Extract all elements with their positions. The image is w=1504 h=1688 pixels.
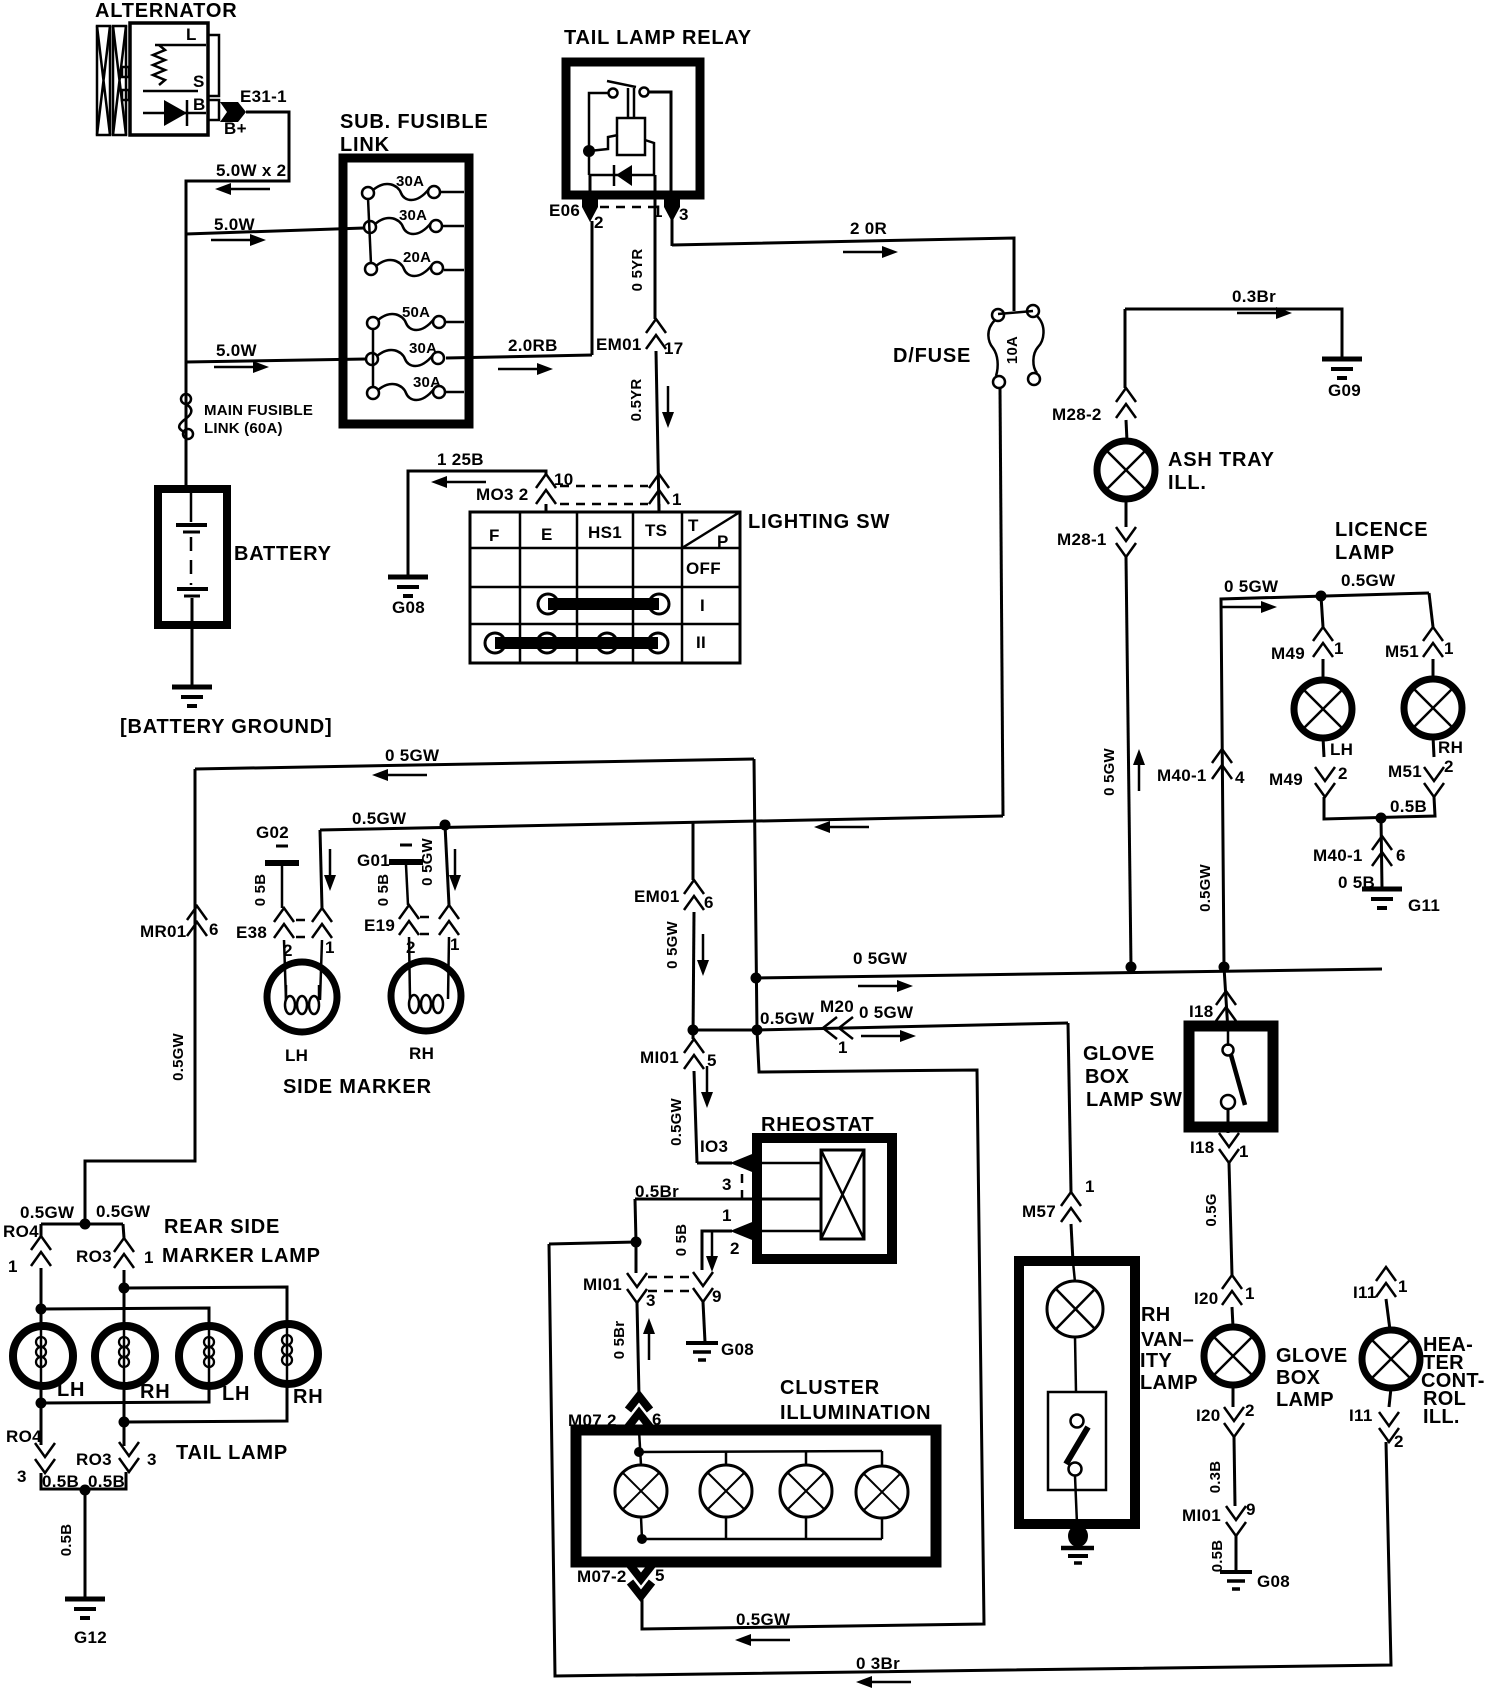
svg-text:1: 1: [325, 938, 335, 957]
svg-text:0 5GW: 0 5GW: [1224, 577, 1279, 596]
svg-text:3: 3: [17, 1467, 27, 1486]
svg-text:0.5G: 0.5G: [1203, 1193, 1220, 1226]
svg-text:G11: G11: [1408, 896, 1440, 915]
svg-text:0 5B: 0 5B: [252, 874, 269, 907]
svg-text:P: P: [717, 532, 729, 551]
svg-text:M49: M49: [1271, 644, 1305, 663]
svg-text:1: 1: [653, 202, 663, 221]
svg-text:ASH TRAY: ASH TRAY: [1168, 449, 1275, 471]
svg-text:E31-1: E31-1: [240, 87, 287, 106]
svg-text:0 5B: 0 5B: [673, 1224, 690, 1257]
svg-text:LAMP SW: LAMP SW: [1086, 1089, 1182, 1111]
svg-text:0 5YR: 0 5YR: [629, 249, 646, 292]
svg-text:G02: G02: [256, 823, 289, 842]
svg-text:0.5GW: 0.5GW: [668, 1098, 685, 1146]
svg-text:MARKER LAMP: MARKER LAMP: [162, 1245, 321, 1267]
svg-text:I11: I11: [1353, 1283, 1377, 1302]
svg-text:2: 2: [283, 941, 293, 960]
svg-text:1: 1: [672, 490, 682, 509]
svg-text:M40-1: M40-1: [1157, 766, 1207, 785]
svg-text:1: 1: [1245, 1284, 1255, 1303]
svg-text:0.3B: 0.3B: [1207, 1461, 1224, 1494]
svg-text:0.5B: 0.5B: [58, 1524, 75, 1557]
svg-text:1: 1: [1085, 1177, 1095, 1196]
svg-text:0.5B: 0.5B: [1390, 797, 1427, 816]
svg-text:10: 10: [554, 470, 574, 489]
svg-text:T: T: [688, 516, 699, 535]
svg-text:G08: G08: [1257, 1572, 1290, 1591]
svg-text:G08: G08: [392, 598, 425, 617]
svg-text:CLUSTER: CLUSTER: [780, 1377, 880, 1399]
svg-text:D/FUSE: D/FUSE: [893, 345, 971, 367]
svg-text:ILL.: ILL.: [1168, 472, 1207, 494]
svg-text:0 5GW: 0 5GW: [853, 949, 908, 968]
svg-text:B: B: [193, 95, 206, 114]
svg-text:IO3: IO3: [700, 1137, 728, 1156]
svg-text:0 5GW: 0 5GW: [385, 746, 440, 765]
svg-text:GLOVE: GLOVE: [1083, 1043, 1155, 1065]
svg-text:MI01: MI01: [583, 1275, 622, 1294]
svg-text:0.5GW: 0.5GW: [170, 1033, 187, 1081]
svg-text:2: 2: [730, 1239, 740, 1258]
svg-text:0.5YR: 0.5YR: [628, 379, 645, 422]
svg-text:0.5GW: 0.5GW: [20, 1203, 75, 1222]
svg-text:EM01: EM01: [634, 887, 680, 906]
svg-text:ILLUMINATION: ILLUMINATION: [780, 1402, 931, 1424]
svg-text:MO3 2: MO3 2: [476, 485, 529, 504]
svg-text:0.5GW: 0.5GW: [760, 1009, 815, 1028]
svg-text:MI01: MI01: [1182, 1506, 1221, 1525]
svg-text:RHEOSTAT: RHEOSTAT: [761, 1114, 874, 1136]
svg-text:5.0W: 5.0W: [216, 341, 258, 360]
svg-text:RO3: RO3: [76, 1450, 112, 1469]
svg-text:1: 1: [450, 935, 460, 954]
svg-text:TAIL LAMP RELAY: TAIL LAMP RELAY: [564, 27, 752, 49]
svg-text:LH: LH: [1330, 740, 1353, 759]
svg-text:RO4: RO4: [3, 1222, 39, 1241]
svg-text:2: 2: [406, 938, 416, 957]
svg-text:30A: 30A: [396, 173, 424, 190]
svg-text:LIGHTING SW: LIGHTING SW: [748, 511, 890, 533]
svg-text:RH: RH: [1141, 1304, 1171, 1326]
svg-text:MI01: MI01: [640, 1048, 679, 1067]
svg-text:9: 9: [712, 1287, 722, 1306]
svg-text:OFF: OFF: [686, 559, 721, 578]
svg-text:G12: G12: [74, 1628, 107, 1647]
svg-text:2.0RB: 2.0RB: [508, 336, 558, 355]
svg-text:5.0W x 2: 5.0W x 2: [216, 161, 286, 180]
svg-text:L: L: [186, 25, 197, 44]
svg-text:0.5GW: 0.5GW: [1197, 864, 1214, 912]
svg-text:1: 1: [144, 1248, 154, 1267]
svg-text:2: 2: [1338, 764, 1348, 783]
svg-text:0 5B: 0 5B: [375, 874, 392, 907]
svg-text:2: 2: [1245, 1401, 1255, 1420]
svg-text:RO4: RO4: [6, 1427, 42, 1446]
svg-text:0 5GW: 0 5GW: [1101, 748, 1118, 796]
svg-text:S: S: [193, 72, 205, 91]
svg-text:0.5Br: 0.5Br: [635, 1182, 679, 1201]
svg-text:M07-2: M07-2: [577, 1567, 627, 1586]
svg-text:LINK: LINK: [340, 134, 390, 156]
svg-text:30A: 30A: [399, 207, 427, 224]
svg-text:I18: I18: [1190, 1138, 1215, 1157]
svg-text:6: 6: [209, 920, 219, 939]
svg-text:B+: B+: [224, 119, 247, 138]
svg-text:30A: 30A: [409, 340, 437, 357]
svg-text:LAMP: LAMP: [1276, 1389, 1334, 1411]
svg-text:SIDE MARKER: SIDE MARKER: [283, 1076, 432, 1098]
svg-text:1: 1: [722, 1206, 732, 1225]
svg-text:2: 2: [1444, 757, 1454, 776]
svg-text:0.5B: 0.5B: [1209, 1540, 1226, 1573]
svg-text:HS1: HS1: [588, 523, 622, 542]
svg-text:ITY: ITY: [1140, 1350, 1172, 1372]
svg-text:LH: LH: [222, 1383, 250, 1405]
svg-text:M49: M49: [1269, 770, 1303, 789]
svg-text:M51: M51: [1388, 762, 1422, 781]
svg-text:5: 5: [655, 1566, 665, 1585]
svg-text:50A: 50A: [402, 304, 430, 321]
svg-text:LAMP: LAMP: [1335, 542, 1395, 564]
svg-text:RH: RH: [293, 1386, 324, 1408]
svg-text:9: 9: [1246, 1500, 1256, 1519]
svg-text:MR01: MR01: [140, 922, 187, 941]
svg-text:BOX: BOX: [1085, 1066, 1130, 1088]
svg-text:10A: 10A: [1004, 336, 1021, 364]
svg-text:4: 4: [1235, 768, 1245, 787]
svg-text:20A: 20A: [403, 249, 431, 266]
svg-text:[BATTERY GROUND]: [BATTERY GROUND]: [120, 716, 332, 738]
svg-text:RH: RH: [1438, 738, 1463, 757]
svg-text:ALTERNATOR: ALTERNATOR: [95, 0, 237, 22]
svg-text:0.5GW: 0.5GW: [1341, 571, 1396, 590]
svg-text:M28-2: M28-2: [1052, 405, 1102, 424]
svg-text:1: 1: [838, 1038, 848, 1057]
svg-text:VAN–: VAN–: [1141, 1329, 1194, 1351]
svg-text:I11: I11: [1349, 1406, 1373, 1425]
svg-text:0 5GW: 0 5GW: [419, 838, 436, 886]
svg-text:0.5GW: 0.5GW: [96, 1202, 151, 1221]
svg-text:2 0R: 2 0R: [850, 219, 887, 238]
svg-text:RH: RH: [409, 1044, 434, 1063]
svg-text:RH: RH: [140, 1381, 171, 1403]
svg-text:TAIL LAMP: TAIL LAMP: [176, 1442, 288, 1464]
svg-text:REAR SIDE: REAR SIDE: [164, 1216, 280, 1238]
svg-text:1 25B: 1 25B: [437, 450, 484, 469]
svg-text:1: 1: [1444, 639, 1454, 658]
svg-text:I: I: [700, 596, 705, 615]
svg-text:0.5GW: 0.5GW: [352, 809, 407, 828]
svg-text:G01: G01: [357, 851, 390, 870]
svg-text:G08: G08: [721, 1340, 754, 1359]
svg-text:G09: G09: [1328, 381, 1361, 400]
svg-text:0 5Br: 0 5Br: [611, 1321, 628, 1360]
svg-text:6: 6: [1396, 846, 1406, 865]
svg-text:BATTERY: BATTERY: [234, 543, 332, 565]
svg-text:LH: LH: [57, 1379, 85, 1401]
svg-text:0 5GW: 0 5GW: [664, 921, 681, 969]
svg-text:2: 2: [1394, 1432, 1404, 1451]
svg-text:LICENCE: LICENCE: [1335, 519, 1428, 541]
svg-text:1: 1: [8, 1257, 18, 1276]
svg-text:5: 5: [707, 1051, 717, 1070]
svg-text:17: 17: [664, 339, 684, 358]
svg-text:2: 2: [594, 213, 604, 232]
svg-text:MAIN FUSIBLE: MAIN FUSIBLE: [204, 402, 313, 419]
svg-text:ILL.: ILL.: [1423, 1406, 1460, 1428]
svg-text:TS: TS: [645, 521, 667, 540]
svg-text:0.5GW: 0.5GW: [736, 1610, 791, 1629]
svg-text:E: E: [541, 525, 553, 544]
svg-text:M20: M20: [820, 997, 854, 1016]
svg-text:RO3: RO3: [76, 1247, 112, 1266]
svg-text:LAMP: LAMP: [1140, 1372, 1198, 1394]
svg-text:SUB. FUSIBLE: SUB. FUSIBLE: [340, 111, 489, 133]
svg-text:E06: E06: [549, 201, 580, 220]
svg-text:GLOVE: GLOVE: [1276, 1345, 1348, 1367]
svg-text:1: 1: [1239, 1142, 1249, 1161]
svg-text:30A: 30A: [413, 374, 441, 391]
svg-text:M57: M57: [1022, 1202, 1056, 1221]
svg-text:1: 1: [1334, 639, 1344, 658]
svg-text:LINK (60A): LINK (60A): [204, 420, 283, 437]
svg-text:3: 3: [679, 205, 689, 224]
svg-text:I18: I18: [1189, 1002, 1214, 1021]
svg-text:E19: E19: [364, 916, 395, 935]
svg-text:0 3Br: 0 3Br: [856, 1654, 900, 1673]
svg-text:3: 3: [646, 1291, 656, 1310]
svg-text:F: F: [489, 526, 500, 545]
svg-text:6: 6: [704, 893, 714, 912]
svg-text:1: 1: [1398, 1277, 1408, 1296]
svg-text:M40-1: M40-1: [1313, 846, 1363, 865]
svg-text:0.3Br: 0.3Br: [1232, 287, 1276, 306]
svg-text:I20: I20: [1196, 1406, 1221, 1425]
svg-text:3: 3: [147, 1450, 157, 1469]
svg-text:EM01: EM01: [596, 335, 642, 354]
svg-text:M51: M51: [1385, 642, 1419, 661]
svg-text:0 5GW: 0 5GW: [859, 1003, 914, 1022]
svg-text:3: 3: [722, 1175, 732, 1194]
svg-text:LH: LH: [285, 1046, 308, 1065]
svg-text:E38: E38: [236, 923, 267, 942]
svg-text:II: II: [696, 633, 706, 652]
svg-text:BOX: BOX: [1276, 1367, 1321, 1389]
svg-text:M28-1: M28-1: [1057, 530, 1107, 549]
svg-text:I20: I20: [1194, 1289, 1219, 1308]
